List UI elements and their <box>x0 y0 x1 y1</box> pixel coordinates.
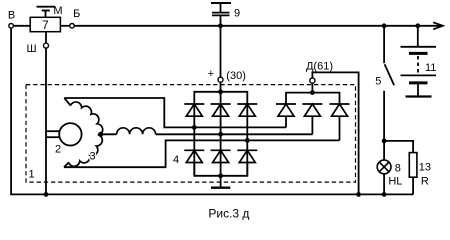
resistor R 13 <box>409 153 417 178</box>
svg-text:Б: Б <box>73 8 80 20</box>
wire resistor bottom to bus <box>412 177 414 194</box>
svg-text:+: + <box>208 68 214 80</box>
junction dot ring/phase2 <box>98 132 103 137</box>
switch 5 upper lead <box>383 26 385 63</box>
stator winding ring 3 <box>69 102 103 166</box>
svg-text:(30): (30) <box>226 70 246 82</box>
capacitor 9 stem upper <box>220 3 222 13</box>
aux diode VD9 lead to phase3 <box>339 116 341 140</box>
diode VD6 bottom row col3 <box>237 150 257 162</box>
svg-text:Рис.3 д: Рис.3 д <box>208 207 249 221</box>
phase3 wire path <box>64 140 339 167</box>
diode VD4 bottom row col1 <box>184 150 204 162</box>
wire (30) terminal vertical <box>220 26 222 92</box>
aux diode VD8 <box>302 104 322 116</box>
terminal Ш <box>44 43 49 48</box>
svg-text:HL: HL <box>388 176 402 188</box>
svg-text:11: 11 <box>425 62 436 74</box>
terminal Б <box>70 24 75 29</box>
svg-text:1: 1 <box>28 169 34 181</box>
junction lamp/resistor branch <box>382 139 387 144</box>
diagonal wire top (ring to phase1) <box>64 98 70 106</box>
lamp HL 8 <box>377 160 391 174</box>
junction rectifier top bus <box>218 89 223 94</box>
rectifier column 2 <box>220 92 222 176</box>
battery 11 cell 1 short plate <box>409 52 428 55</box>
svg-text:3: 3 <box>89 151 95 163</box>
terminal Д(61) <box>310 78 315 83</box>
svg-text:13: 13 <box>419 161 431 173</box>
diode VD3 top row col3 <box>237 104 257 116</box>
svg-text:9: 9 <box>234 8 240 20</box>
battery 11 stem bottom <box>417 84 419 96</box>
brush stub lower <box>46 136 59 138</box>
svg-text:5: 5 <box>375 75 381 87</box>
voltage regulator box 7 <box>30 17 60 31</box>
junction Д(61) line / bottom bus <box>356 192 361 197</box>
wire Д(61) stem down to aux bus <box>311 83 313 92</box>
junction phase3/col3 <box>245 138 250 143</box>
svg-text:Д(61): Д(61) <box>306 61 333 73</box>
svg-text:8: 8 <box>395 162 401 174</box>
wire regulator Ш stem <box>45 32 47 43</box>
switch 5 lower lead <box>383 91 385 141</box>
svg-text:2: 2 <box>55 143 61 155</box>
auxiliary rectifier top bus <box>286 93 340 104</box>
wire Ш down to bus <box>45 48 47 194</box>
inductor 4 (stator coil) <box>117 128 156 135</box>
terminal (30) <box>218 77 223 82</box>
phase2 wire to inductor <box>101 133 117 135</box>
svg-text:Ш: Ш <box>26 43 36 55</box>
phase2 wire to rectifier <box>156 133 313 135</box>
svg-text:4: 4 <box>173 154 179 166</box>
battery 11 stem top <box>417 26 419 47</box>
svg-text:В: В <box>8 9 15 21</box>
junction Ш/bus <box>44 192 49 197</box>
junction lamp / bottom bus <box>382 192 387 197</box>
ground symbol M (above regulator) <box>37 7 56 18</box>
aux diode VD7 lead to phase1 <box>285 116 287 127</box>
battery 11 cell 1 long plate <box>401 46 437 48</box>
aux diode VD7 <box>276 104 296 116</box>
ground bar (battery) <box>406 95 432 97</box>
arrow at right end of top bus <box>433 22 443 29</box>
svg-text:7: 7 <box>42 18 49 32</box>
rotor circle 2 <box>59 123 81 145</box>
diagonal wire bottom (ring to phase3) <box>64 162 69 167</box>
wire regulator right to terminal Б <box>60 25 69 27</box>
junction phase1/col1 <box>192 125 197 130</box>
rectifier column 3 <box>246 104 248 176</box>
brush stub upper <box>46 130 59 132</box>
battery 11 cell 2 short plate <box>409 81 428 84</box>
svg-text:М: М <box>53 5 62 17</box>
junction top bus / capacitor <box>218 23 223 28</box>
capacitor 9 plates <box>212 13 230 16</box>
wire branch to resistor <box>384 141 413 153</box>
aux diode VD9 <box>330 104 350 116</box>
switch 5 blade <box>385 64 395 85</box>
diode VD2 top row col2 <box>211 104 231 116</box>
battery 11 cell 2 long plate <box>401 74 437 76</box>
aux diode VD8 lead to phase2 <box>311 116 313 134</box>
phase1 wire path <box>64 98 286 127</box>
diode VD5 bottom row col2 <box>211 150 231 162</box>
wire regulator left to terminal В <box>13 25 30 27</box>
ground bar (rectifier minus) <box>211 186 230 188</box>
generator dashed box <box>26 85 356 183</box>
wire В down and bottom bus <box>11 28 413 195</box>
wire rectifier minus to ground <box>220 176 222 188</box>
battery 11 dashed link <box>417 56 419 74</box>
ground bar (capacitor 9) <box>211 2 231 4</box>
junction aux bus / Д(61) <box>310 90 315 95</box>
terminal В <box>9 24 14 29</box>
junction top bus / battery <box>415 23 420 28</box>
svg-text:R: R <box>421 176 429 188</box>
junction phase2/col2 <box>218 132 223 137</box>
wire lamp down to bus <box>383 174 385 195</box>
junction top bus / switch <box>382 23 387 28</box>
capacitor 9 stem lower <box>220 15 222 25</box>
rectifier column 1 <box>193 104 195 176</box>
top bus wire <box>74 25 442 27</box>
junction rectifier bottom bus <box>218 173 223 178</box>
rectifier bottom bus <box>194 163 247 176</box>
wire Д(61) jog to right and down to bottom bus <box>312 72 358 194</box>
rectifier top bus <box>194 92 247 104</box>
wire switch to lamp <box>383 141 385 160</box>
diode VD1 top row col1 <box>184 104 204 116</box>
